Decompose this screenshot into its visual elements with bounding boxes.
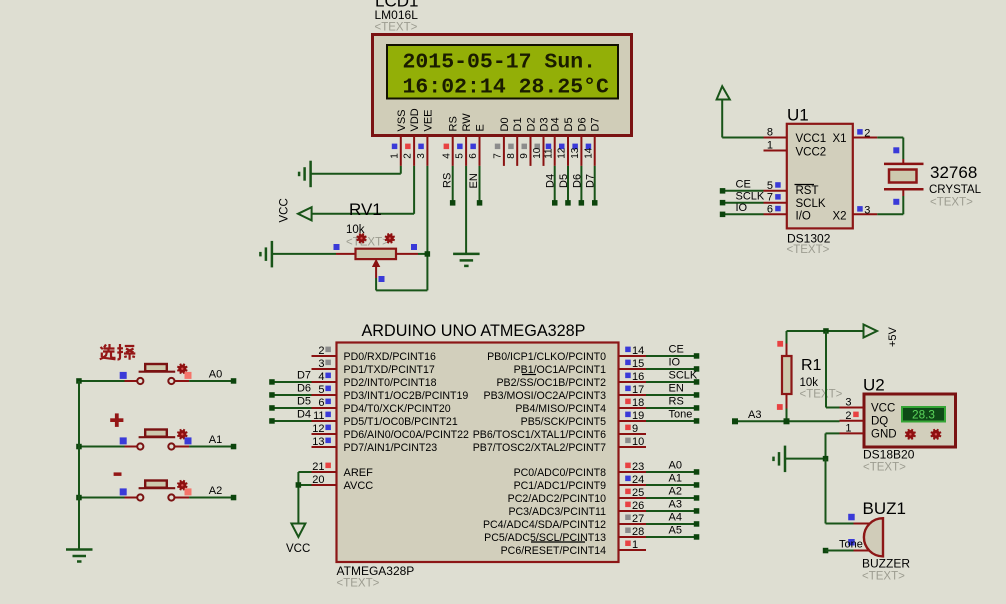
- terminal D5: [565, 200, 571, 206]
- svg-text:D4: D4: [297, 409, 311, 421]
- svg-text:13: 13: [312, 436, 324, 448]
- chip pin 5 (PD3/INT1/OC2B/PCINT19): [312, 394, 337, 396]
- svg-text:10k: 10k: [800, 377, 819, 389]
- svg-text:EN: EN: [468, 173, 480, 188]
- svg-text:X1: X1: [833, 133, 847, 145]
- terminal D6: [579, 200, 585, 206]
- svg-text:ATMEGA328P: ATMEGA328P: [337, 564, 415, 578]
- terminal D4: [552, 200, 558, 206]
- button state squares: [120, 372, 127, 379]
- svg-text:<TEXT>: <TEXT>: [337, 578, 380, 590]
- VCC power arrow (down): [291, 524, 305, 538]
- push button select (A0): [79, 380, 125, 382]
- svg-text:4: 4: [441, 153, 452, 159]
- junction GND/buzzer: [823, 456, 829, 462]
- buzzer + stub: [854, 523, 870, 525]
- svg-text:CE: CE: [736, 179, 751, 191]
- chip pin 1 (PC6/RESET/PCINT14): [619, 549, 647, 551]
- svg-text:2: 2: [403, 153, 414, 159]
- svg-text:PC3/ADC3/PCINT11: PC3/ADC3/PCINT11: [508, 506, 606, 518]
- resistor R1 body: [782, 356, 792, 394]
- RESET overline: [531, 541, 585, 543]
- ground at RV1: [271, 241, 274, 268]
- ground at LCD VSS: [309, 161, 312, 188]
- terminal A1: [231, 444, 237, 450]
- svg-text:2: 2: [318, 345, 324, 357]
- U2 DS18B20 body: [864, 394, 956, 447]
- wire X2 to crystal: [877, 213, 903, 215]
- svg-text:D1: D1: [512, 117, 524, 131]
- svg-text:PD1/TXD/PCINT17: PD1/TXD/PCINT17: [344, 364, 435, 376]
- svg-text:D7: D7: [297, 370, 311, 382]
- RV1 actuator down: [386, 234, 394, 242]
- svg-text:PD4/T0/XCK/PCINT20: PD4/T0/XCK/PCINT20: [344, 403, 451, 415]
- svg-text:20: 20: [312, 474, 324, 486]
- svg-text:27: 27: [632, 513, 644, 525]
- svg-text:<TEXT>: <TEXT>: [862, 571, 905, 583]
- svg-text:D2: D2: [526, 117, 538, 131]
- svg-text:<TEXT>: <TEXT>: [375, 22, 418, 34]
- R1 bottom lead: [786, 394, 788, 409]
- svg-text:3: 3: [416, 153, 427, 159]
- svg-text:D5: D5: [558, 174, 570, 188]
- svg-text:PD5/T1/OC0B/PCINT21: PD5/T1/OC0B/PCINT21: [344, 416, 458, 428]
- terminal A0: [231, 378, 237, 384]
- svg-text:6: 6: [767, 203, 773, 215]
- button bridge and cap: [139, 436, 176, 438]
- terminal D7: [269, 379, 275, 385]
- svg-text:7: 7: [493, 153, 504, 159]
- chip pin 16 (PB2/SS/OC1B/PCINT2): [619, 381, 647, 383]
- svg-text:5: 5: [455, 153, 466, 159]
- wire LCD D4 down: [554, 166, 556, 203]
- svg-text:11: 11: [543, 148, 554, 159]
- chip pin 3 (PD1/TXD/PCINT17): [312, 368, 337, 370]
- svg-text:15: 15: [632, 358, 644, 370]
- svg-text:25: 25: [632, 487, 644, 499]
- svg-text:6: 6: [468, 153, 479, 159]
- chip pin 13 (PD7/AIN1/PCINT23): [312, 446, 337, 448]
- wire D5 to chip: [272, 407, 312, 409]
- svg-text:DQ: DQ: [871, 416, 888, 428]
- push button minus (A2): [79, 497, 125, 499]
- svg-text:IO: IO: [736, 202, 748, 214]
- svg-text:VCC: VCC: [871, 402, 895, 414]
- junction RV1/VEE: [425, 251, 431, 257]
- LCD green screen: [387, 45, 618, 99]
- wire SCLK from chip: [646, 381, 697, 383]
- svg-text:A0: A0: [209, 369, 222, 381]
- svg-text:A3: A3: [748, 409, 761, 421]
- svg-text:A3: A3: [669, 499, 682, 511]
- terminal D5: [269, 405, 275, 411]
- wire D7 to chip: [272, 381, 312, 383]
- wire X1 to crystal: [877, 137, 903, 139]
- chip pin 18 (PB4/MISO/PCINT4): [619, 407, 647, 409]
- svg-text:PC1/ADC1/PCINT9: PC1/ADC1/PCINT9: [514, 480, 607, 492]
- svg-text:9: 9: [519, 153, 530, 159]
- button state squares: [120, 437, 127, 444]
- svg-text:3: 3: [864, 204, 870, 216]
- svg-text:RS: RS: [669, 396, 684, 408]
- U2 pin 1 GND stub: [840, 432, 865, 434]
- wire CE to U1: [723, 190, 764, 192]
- chip pin 14 (PB0/ICP1/CLKO/PCINT0): [619, 355, 647, 357]
- wire A5 from chip: [646, 536, 697, 538]
- ground at LCD RW: [453, 253, 480, 256]
- chip pin 6 (PD4/T0/XCK/PCINT20): [312, 407, 337, 409]
- svg-text:PB5/SCK/PCINT5: PB5/SCK/PCINT5: [521, 416, 606, 428]
- terminal A0: [694, 469, 700, 475]
- svg-text:D6: D6: [576, 117, 588, 131]
- wire EN from chip: [646, 394, 697, 396]
- RV1 wiper arrow: [373, 260, 380, 267]
- svg-text:18: 18: [632, 397, 644, 409]
- U2 pin 2 DQ stub: [840, 420, 865, 422]
- svg-text:ARDUINO UNO ATMEGA328P: ARDUINO UNO ATMEGA328P: [362, 322, 586, 340]
- push button plus (A1): [79, 446, 125, 448]
- label select (Chinese): [100, 344, 136, 360]
- wire IO from chip: [646, 368, 697, 370]
- bus junction: [76, 444, 82, 450]
- wire A1 from chip: [646, 484, 697, 486]
- ground at U2: [784, 446, 787, 473]
- svg-text:10: 10: [632, 436, 644, 448]
- chip pin 9 (PB6/TOSC1/XTAL1/PCINT6): [619, 433, 647, 435]
- svg-text:<TEXT>: <TEXT>: [863, 462, 906, 474]
- svg-text:VSS: VSS: [396, 109, 408, 131]
- chip pin 15 (PB1/OC1A/PCINT1): [619, 368, 647, 370]
- wire LCD pin2 VDD to VCC: [413, 166, 415, 214]
- U1 pin 3 X2 stub: [853, 213, 878, 215]
- svg-text:1: 1: [632, 539, 638, 551]
- U1 pin 5 stub: [764, 190, 787, 192]
- svg-text:16: 16: [632, 371, 644, 383]
- U1 pin 8 stub: [764, 137, 787, 139]
- terminal Tone: [823, 548, 829, 554]
- wire IO to U1: [723, 213, 764, 215]
- chip pin 26 (PC3/ADC3/PCINT11): [619, 510, 647, 512]
- svg-text:PB4/MISO/PCINT4: PB4/MISO/PCINT4: [515, 403, 606, 415]
- terminal A2: [694, 495, 700, 501]
- svg-text:SCLK: SCLK: [669, 370, 698, 382]
- terminal IO: [694, 366, 700, 372]
- svg-text:23: 23: [632, 461, 644, 473]
- svg-text:D6: D6: [297, 383, 311, 395]
- LCD LM016L body: [373, 35, 632, 136]
- wire LCD pin6 E down: [479, 166, 481, 203]
- svg-text:8: 8: [506, 153, 517, 159]
- wire D4 to chip: [272, 420, 312, 422]
- svg-text:13: 13: [570, 147, 581, 159]
- wire LCD pin1 VSS to ground: [400, 166, 402, 174]
- svg-text:24: 24: [632, 474, 644, 486]
- +5V rail wire: [787, 330, 864, 332]
- svg-text:VCC: VCC: [279, 198, 291, 222]
- R1 top lead: [786, 344, 788, 357]
- wire +5V down to R1: [786, 331, 788, 344]
- svg-text:VCC: VCC: [286, 543, 310, 555]
- svg-text:PD0/RXD/PCINT16: PD0/RXD/PCINT16: [344, 351, 437, 363]
- terminal EN: [694, 392, 700, 398]
- svg-text:32768: 32768: [930, 163, 977, 182]
- chip pin 25 (PC2/ADC2/PCINT10): [619, 497, 647, 499]
- svg-text:AREF: AREF: [344, 467, 374, 479]
- button actuator star: [178, 481, 186, 489]
- svg-text:D7: D7: [590, 117, 602, 131]
- wire SCLK to U1: [723, 202, 764, 204]
- button bridge and cap: [139, 371, 176, 373]
- chip pin 20 AVCC: [312, 484, 337, 486]
- svg-text:CRYSTAL: CRYSTAL: [929, 184, 982, 196]
- svg-text:21: 21: [312, 461, 324, 473]
- crystal plates: [884, 163, 924, 166]
- chip pin 21 AREF: [312, 471, 337, 473]
- svg-text:5: 5: [767, 180, 773, 192]
- terminal A5: [694, 534, 700, 540]
- wire ground to RV1: [272, 253, 336, 255]
- svg-text:7: 7: [767, 192, 773, 204]
- wire A2 from chip: [646, 497, 697, 499]
- chip pin 4 (PD2/INT0/PCINT18): [312, 381, 337, 383]
- crystal body: [889, 170, 917, 183]
- U1 pin 1 stub: [764, 150, 787, 152]
- svg-text:PD2/INT0/PCINT18: PD2/INT0/PCINT18: [344, 377, 437, 389]
- svg-text:PC4/ADC4/SDA/PCINT12: PC4/ADC4/SDA/PCINT12: [483, 519, 606, 531]
- button bridge and cap: [139, 487, 176, 489]
- svg-text:D5: D5: [297, 396, 311, 408]
- terminal A3: [732, 418, 738, 424]
- terminal A3: [694, 508, 700, 514]
- wire A4 from chip: [646, 523, 697, 525]
- svg-text:14: 14: [583, 147, 594, 159]
- svg-text:D5: D5: [563, 117, 575, 131]
- buzzer - stub: [854, 550, 870, 552]
- svg-text:9: 9: [632, 423, 638, 435]
- wire +5V to U2 VCC: [823, 328, 829, 334]
- svg-text:4: 4: [318, 371, 324, 383]
- button state squares: [120, 488, 127, 495]
- RV1 body: [356, 249, 397, 259]
- svg-text:U2: U2: [863, 376, 885, 395]
- crystal X2 state square: [893, 199, 899, 205]
- svg-text:BUZZER: BUZZER: [862, 557, 910, 571]
- wire D6 to chip: [272, 394, 312, 396]
- terminal A1: [694, 482, 700, 488]
- svg-text:PB2/SS/OC1B/PCINT2: PB2/SS/OC1B/PCINT2: [496, 377, 606, 389]
- power arrow above U1: [717, 86, 730, 99]
- svg-text:RST: RST: [796, 185, 819, 197]
- wire to buzzer +: [825, 459, 827, 524]
- wire A0 from chip: [646, 471, 697, 473]
- wire LCD D6 down: [580, 166, 582, 203]
- svg-text:DS18B20: DS18B20: [863, 448, 915, 462]
- svg-text:2015-05-17 Sun.: 2015-05-17 Sun.: [403, 51, 597, 75]
- wire RS from chip: [646, 407, 697, 409]
- svg-text:19: 19: [632, 410, 644, 422]
- terminal CE: [694, 353, 700, 359]
- U2 pin 3 VCC stub: [840, 407, 865, 409]
- terminal D6: [269, 392, 275, 398]
- svg-text:RS: RS: [448, 116, 460, 131]
- R1 state square bottom: [777, 404, 783, 410]
- wire LCD pin4 RS down: [452, 166, 454, 203]
- svg-text:PB3/MOSI/OC2A/PCINT3: PB3/MOSI/OC2A/PCINT3: [484, 390, 607, 402]
- U1 pin 2 X1 stub: [853, 137, 878, 139]
- label plus: [110, 418, 123, 422]
- svg-text:8: 8: [767, 127, 773, 139]
- svg-text:SCLK: SCLK: [796, 198, 826, 210]
- svg-text:<TEXT>: <TEXT>: [930, 197, 973, 209]
- svg-text:CE: CE: [669, 344, 684, 356]
- svg-text:6: 6: [318, 397, 324, 409]
- ATMEGA328P chip body: [337, 343, 619, 563]
- svg-text:D3: D3: [539, 117, 551, 131]
- svg-text:IO: IO: [669, 357, 681, 369]
- svg-text:10k: 10k: [346, 224, 365, 236]
- U2 temperature display: [902, 407, 945, 422]
- svg-text:<TEXT>: <TEXT>: [346, 237, 389, 249]
- svg-text:PD7/AIN1/PCINT23: PD7/AIN1/PCINT23: [344, 442, 438, 454]
- U2 button up: [932, 430, 940, 438]
- svg-text:<TEXT>: <TEXT>: [800, 389, 843, 401]
- RV1 state squares: [334, 244, 340, 250]
- svg-text:A2: A2: [209, 485, 222, 497]
- svg-text:D6: D6: [571, 174, 583, 188]
- svg-text:1: 1: [389, 153, 400, 159]
- RV1 actuator up: [358, 234, 366, 242]
- svg-text:D0: D0: [499, 117, 511, 131]
- wire U2 GND: [826, 432, 840, 434]
- VCC power arrow (left): [298, 207, 312, 220]
- terminal IO: [720, 212, 726, 218]
- U1 DS1302 body: [787, 124, 853, 229]
- svg-text:U1: U1: [787, 106, 809, 125]
- svg-text:PB7/TOSC2/XTAL2/PCINT7: PB7/TOSC2/XTAL2/PCINT7: [473, 442, 606, 454]
- wire A3: [786, 409, 788, 422]
- svg-text:Tone: Tone: [669, 409, 693, 421]
- svg-text:RS: RS: [442, 173, 454, 188]
- RV1 left lead: [336, 253, 356, 255]
- svg-text:Tone: Tone: [839, 539, 863, 551]
- svg-text:11: 11: [313, 410, 324, 422]
- svg-text:1: 1: [767, 140, 773, 152]
- svg-text:17: 17: [632, 384, 644, 396]
- junction A3/R1: [784, 418, 790, 424]
- svg-text:PC2/ADC2/PCINT10: PC2/ADC2/PCINT10: [508, 493, 606, 505]
- svg-text:12: 12: [557, 147, 568, 159]
- terminal CE: [720, 188, 726, 194]
- svg-text:BUZ1: BUZ1: [863, 499, 906, 518]
- ground at buttons: [66, 548, 93, 551]
- terminal Tone: [694, 418, 700, 424]
- chip pin 2 (PD0/RXD/PCINT16): [312, 355, 337, 357]
- svg-text:+5V: +5V: [887, 326, 899, 347]
- wire CE from chip: [646, 355, 697, 357]
- svg-text:RW: RW: [461, 113, 473, 132]
- terminal D4: [269, 418, 275, 424]
- terminal RS: [450, 200, 456, 206]
- svg-text:D4: D4: [550, 117, 562, 131]
- svg-text:10: 10: [532, 147, 543, 159]
- svg-text:A1: A1: [209, 434, 222, 446]
- svg-text:A5: A5: [669, 525, 682, 537]
- button actuator star: [178, 430, 186, 438]
- svg-text:PD6/AIN0/OC0A/PCINT22: PD6/AIN0/OC0A/PCINT22: [344, 429, 470, 441]
- wire Tone from chip: [646, 420, 697, 422]
- wire LCD D5 down: [567, 166, 569, 203]
- svg-text:SCLK: SCLK: [736, 190, 765, 202]
- terminal RS: [694, 405, 700, 411]
- svg-text:A2: A2: [669, 486, 682, 498]
- svg-text:2: 2: [845, 410, 851, 422]
- wire Tone to buzzer: [826, 550, 854, 552]
- svg-text:2: 2: [864, 128, 870, 140]
- svg-text:GND: GND: [871, 429, 897, 441]
- wire AREF/AVCC to VCC arrow: [298, 471, 311, 473]
- RV1 right lead: [396, 253, 418, 255]
- button bus wire: [78, 381, 80, 550]
- svg-text:PB0/ICP1/CLKO/PCINT0: PB0/ICP1/CLKO/PCINT0: [487, 351, 606, 363]
- svg-text:X2: X2: [833, 210, 847, 222]
- svg-text:3: 3: [845, 397, 851, 409]
- svg-text:A1: A1: [669, 473, 682, 485]
- bus junction: [76, 495, 82, 501]
- svg-text:VCC1: VCC1: [796, 133, 827, 145]
- svg-text:PC0/ADC0/PCINT8: PC0/ADC0/PCINT8: [514, 467, 607, 479]
- bus junction: [76, 378, 82, 384]
- chip pin 12 (PD6/AIN0/OC0A/PCINT22): [312, 433, 337, 435]
- svg-text:PB6/TOSC1/XTAL1/PCINT6: PB6/TOSC1/XTAL1/PCINT6: [473, 429, 606, 441]
- svg-text:5: 5: [318, 384, 324, 396]
- terminal D7: [592, 200, 598, 206]
- wire power to U1 VCC1: [721, 100, 723, 138]
- svg-text:PC6/RESET/PCINT14: PC6/RESET/PCINT14: [501, 545, 606, 557]
- svg-text:PD3/INT1/OC2B/PCINT19: PD3/INT1/OC2B/PCINT19: [344, 390, 469, 402]
- U1 pin 6 stub: [764, 213, 787, 215]
- crystal X1 state square: [893, 147, 899, 153]
- svg-text:D7: D7: [585, 174, 597, 188]
- terminal SCLK: [694, 379, 700, 385]
- svg-text:VDD: VDD: [409, 108, 421, 131]
- wire LCD D7 down: [594, 166, 596, 203]
- junction AREF/AVCC: [296, 482, 302, 488]
- chip pin 23 (PC0/ADC0/PCINT8): [619, 471, 647, 473]
- svg-text:R1: R1: [801, 357, 822, 374]
- R1 state square top: [777, 341, 783, 347]
- terminal A2: [231, 495, 237, 501]
- svg-text:VCC2: VCC2: [796, 146, 827, 158]
- RST overline: [795, 184, 815, 186]
- wire A3 from chip: [646, 510, 697, 512]
- chip pin 19 (PB5/SCK/PCINT5): [619, 420, 647, 422]
- terminal A4: [694, 521, 700, 527]
- label minus: [114, 472, 122, 476]
- svg-text:28: 28: [632, 526, 644, 538]
- svg-text:I/O: I/O: [796, 210, 811, 222]
- terminal SCLK: [720, 200, 726, 206]
- buzzer state squares: [848, 514, 855, 521]
- U1 pin 7 stub: [764, 202, 787, 204]
- button actuator star: [178, 365, 186, 373]
- svg-text:<TEXT>: <TEXT>: [787, 244, 830, 256]
- wire LCD pin3 VEE down to RV1: [426, 166, 428, 291]
- svg-text:16:02:14 28.25°C: 16:02:14 28.25°C: [403, 76, 610, 100]
- chip pin 11 (PD5/T1/OC0B/PCINT21): [312, 420, 337, 422]
- svg-text:D4: D4: [545, 174, 557, 188]
- svg-text:A0: A0: [669, 460, 682, 472]
- U2 button down: [906, 430, 914, 438]
